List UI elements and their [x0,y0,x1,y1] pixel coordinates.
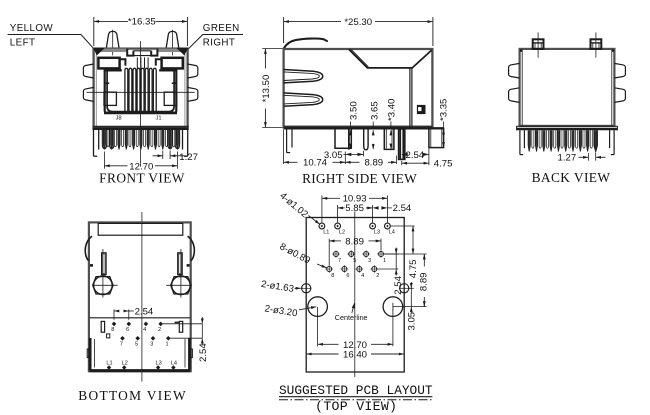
pcb dim 10.93 [321,195,323,222]
svg-text:2.54: 2.54 [406,150,425,161]
side view rear post F [429,129,444,148]
side view dim *25.30 [284,21,341,23]
svg-text:2.54: 2.54 [135,306,154,317]
pcb LED holes L1-L4 [319,223,325,229]
back view left latch wings [509,63,520,78]
front view top edge gray band [95,49,127,52]
svg-text:L4: L4 [171,361,177,367]
svg-text:2: 2 [158,327,161,333]
bottom view dim 2.54 vertical [163,323,203,325]
side view board lock leg E [399,129,405,159]
svg-text:RIGHT: RIGHT [203,38,235,49]
bottom view pin dots row 2 [120,336,125,341]
svg-text:1: 1 [383,258,386,264]
svg-text:5.85: 5.85 [345,203,364,214]
svg-text:LEFT: LEFT [10,38,36,49]
bottom view right side notch [187,264,190,267]
svg-text:YELLOW: YELLOW [10,23,54,34]
side view light pipe slot lower [284,93,323,106]
back view right hook [613,130,615,154]
front view right shield hook [187,130,189,156]
svg-text:L2: L2 [122,361,128,367]
svg-text:2: 2 [376,273,379,279]
svg-text:L1: L1 [323,230,329,236]
front view right dome centerline [172,30,174,56]
pcb board outline [306,218,404,373]
front view LED light pipe right dome [166,31,179,48]
bottom view right light pipe slot [178,253,183,275]
svg-text:L3: L3 [155,361,161,367]
pcb dim 3.05 vertical [409,287,414,289]
svg-text:5: 5 [353,258,356,264]
svg-text:7: 7 [120,341,123,347]
front view left LED bezel [98,58,119,69]
front view horizontal centerline [87,91,195,93]
pcb dim 2.54 vertical [383,253,398,255]
bottom view right post circle [172,276,191,295]
bottom view right slot in pin field [179,321,182,332]
svg-text:*3.40: *3.40 [387,99,398,121]
svg-text:4: 4 [361,273,364,279]
front view cavity right wall [159,69,177,71]
pcb dim 8.89 horizontal [328,239,330,266]
pcb centerline [354,211,356,377]
side view front shield hook [286,129,288,152]
back view bottom flange [517,125,618,127]
front view right lower pocket [164,92,176,105]
svg-text:2.54: 2.54 [198,343,209,362]
pcb big holes 3.20 [308,297,328,317]
back view left hook [519,130,521,154]
bottom view right post boss [171,277,192,294]
front view left lower pocket [104,92,116,105]
svg-text:Centerline: Centerline [335,313,368,322]
svg-text:4.75: 4.75 [408,260,419,279]
svg-text:16.40: 16.40 [343,350,367,361]
front view group [8,17,243,186]
front view left shield hook [93,130,95,156]
svg-text:RIGHT SIDE VIEW: RIGHT SIDE VIEW [302,171,417,186]
front view left latch wing [83,64,93,78]
svg-text:8.89: 8.89 [419,272,430,291]
svg-text:L3: L3 [374,230,380,236]
svg-text:*3.35: *3.35 [439,99,450,121]
side view body outline [284,49,433,127]
svg-text:4: 4 [143,327,146,333]
svg-text:J8: J8 [115,115,121,121]
front view dim 12.70 [105,165,128,167]
bottom view bottom thick edge [90,369,191,372]
pcb dim 16.40 [306,353,338,355]
bottom view pin dots row 1 [112,322,117,327]
bottom view faceplate rect [98,223,183,235]
side view dim 2.54 [401,161,403,165]
right side view group [261,17,453,186]
bottom view left latch arc [85,236,92,261]
svg-text:BOTTOM VIEW: BOTTOM VIEW [78,388,187,403]
svg-text:*25.30: *25.30 [344,17,372,28]
svg-text:3.05: 3.05 [407,312,418,331]
front view pin comb [103,130,105,150]
side view light pipe slot upper [284,70,323,83]
svg-text:6: 6 [126,327,129,333]
side view roof diagonal left [349,49,432,68]
side view leg A [335,129,351,148]
pcb dim 4.75 vertical [391,225,415,227]
side view dim 4.75 [402,162,429,164]
front view top-right corner wedge [177,48,187,54]
front view body outline [94,49,188,128]
back view right latch wings [614,63,625,78]
svg-text:3.65: 3.65 [370,101,381,120]
front view outer contact pin right [168,130,172,149]
svg-text:3: 3 [150,341,153,347]
side view dim *3.35 [443,129,445,134]
svg-text:8: 8 [331,273,334,279]
yellow LED leader line [8,35,95,50]
bottom view left post circle [94,276,113,295]
svg-text:8.89: 8.89 [345,236,364,247]
svg-text:2.54: 2.54 [393,203,412,214]
back view dim 1.27 [587,153,589,161]
front view contact comb loops [125,68,128,111]
back view left post [533,39,544,49]
pcb layout group [260,191,433,415]
bottom view right latch arc [188,236,195,261]
front view LED light pipe left dome [106,31,119,48]
side view contact pin B [364,129,368,149]
bottom view body outline [89,222,191,371]
side view dim *3.40 [390,122,392,129]
svg-text:BACK VIEW: BACK VIEW [532,170,611,185]
svg-text:FRONT VIEW: FRONT VIEW [99,171,185,186]
side view dim 10.74 extensions [283,130,285,164]
front view hairpin shield fingers [107,130,109,147]
back view hairpin shield fingers [532,130,534,148]
svg-text:8: 8 [111,327,114,333]
green LED leader line [188,35,243,50]
side view latch spring [284,39,327,49]
bottom view group [78,212,209,403]
svg-text:6: 6 [346,273,349,279]
bottom view left light pipe slot [102,253,107,275]
pcb dim 5.85 [337,205,339,223]
pcb dim 2.54 top [373,206,379,209]
side view back wall double line [409,68,411,127]
svg-text:3.50: 3.50 [348,101,359,120]
front view plug latch slot [127,49,133,56]
front view outer contact pin left [102,130,106,149]
svg-text:5: 5 [135,341,138,347]
back view body outline [520,49,615,126]
side view dim 3.50 [350,122,352,129]
front view cavity floor [104,112,177,115]
svg-text:*16.35: *16.35 [128,17,156,28]
front view upper contact guides [136,57,138,68]
svg-text:L1: L1 [106,361,112,367]
side view dim *13.50 extensions [262,48,282,50]
svg-text:SUGGESTED PCB LAYOUT: SUGGESTED PCB LAYOUT [279,383,433,398]
bottom view left side notch [90,264,93,267]
front view bottom flange [93,125,189,127]
bottom view divider line [90,317,191,319]
front view dim *16.35 extension lines [93,17,95,46]
svg-text:7: 7 [338,258,341,264]
back view right post [591,39,602,49]
svg-text:1.27: 1.27 [179,152,198,163]
front view right LED bezel [162,58,183,69]
front view vertical centerline [140,41,142,167]
front view cavity left wall [104,69,122,71]
svg-text:8.89: 8.89 [364,158,383,169]
side view dim 10.74 and 8.89 [284,161,298,163]
bottom view dim 2.54 horizontal [113,309,115,319]
side view leg D [384,129,394,149]
bottom view left post boss [93,277,114,294]
svg-text:*13.50: *13.50 [261,75,272,103]
svg-text:1: 1 [166,341,169,347]
svg-text:(TOP VIEW): (TOP VIEW) [315,399,397,414]
back view pin comb [528,130,530,151]
bottom view centerline [141,212,143,382]
pcb dim 12.70 [317,307,319,346]
front view dim 1.27 [162,151,164,160]
front view cavity outline [107,69,174,111]
back view group [509,32,626,185]
side view dim *13.50 [264,49,266,69]
pcb dim 8.89 vertical [423,254,425,260]
side view dim 3.65 [372,122,374,129]
svg-text:3: 3 [368,258,371,264]
svg-text:2.54: 2.54 [393,275,404,294]
front view top-left corner wedge [94,48,104,54]
side view solder tab [417,105,425,113]
svg-text:4.75: 4.75 [434,159,453,170]
svg-text:10.74: 10.74 [303,158,328,169]
pcb contact holes row B [327,267,332,272]
side view dim *25.30 extensions [283,17,285,43]
svg-text:L2: L2 [339,230,345,236]
side view bottom edge [284,125,433,127]
svg-text:GREEN: GREEN [203,23,240,34]
bottom view small square mark [107,334,110,338]
svg-text:J1: J1 [155,115,161,121]
svg-text:L4: L4 [389,230,395,236]
front view right latch wing [187,64,197,78]
front view dim 12.70 extensions [103,152,105,169]
pcb contact holes row A [334,252,339,257]
bottom view lower shell edges [89,338,92,370]
svg-text:1.27: 1.27 [558,153,577,164]
bottom view left slot in pin field [101,321,104,332]
pcb side holes 1.63 [302,284,311,293]
front view dim *16.35 [94,20,128,22]
front view left dome centerline [112,30,114,56]
